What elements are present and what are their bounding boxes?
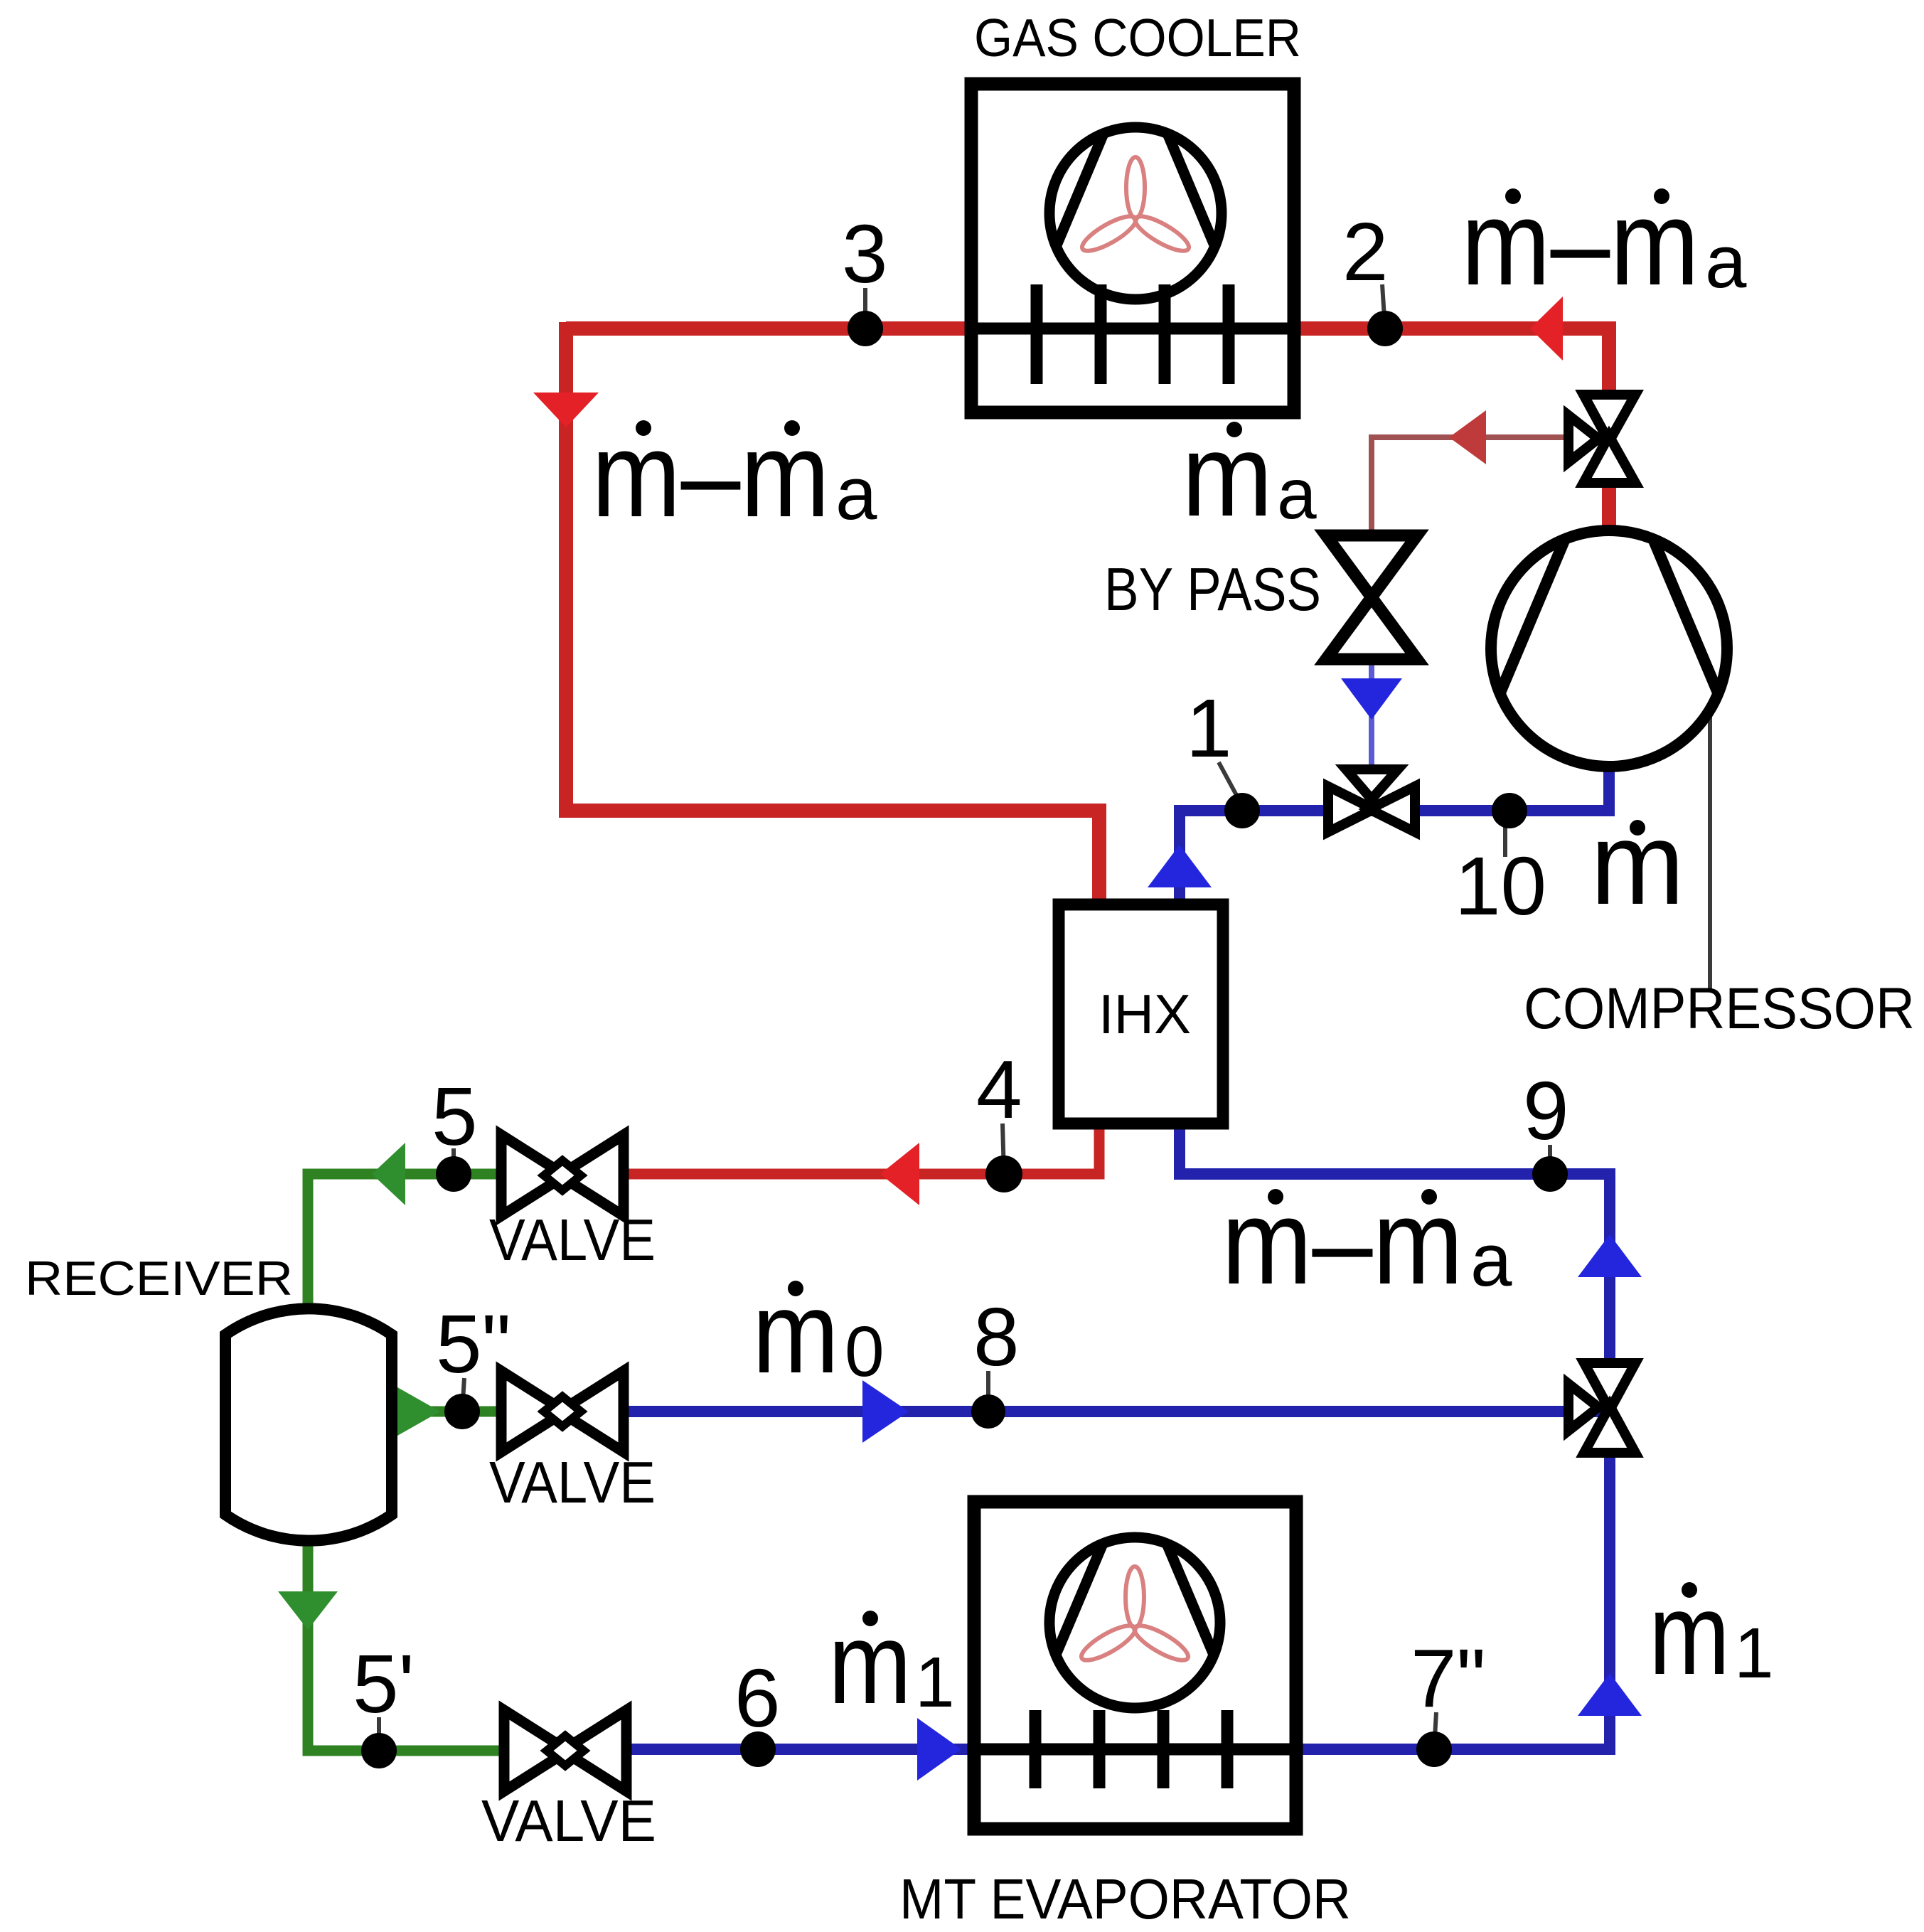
svg-text:0: 0 [845,1312,884,1392]
svg-text:9: 9 [1523,1064,1569,1157]
svg-text:6: 6 [734,1652,781,1744]
svg-text:VALVE: VALVE [489,1449,656,1515]
svg-text:10: 10 [1455,840,1546,932]
svg-text:1: 1 [915,1643,955,1722]
svg-text:GAS COOLER: GAS COOLER [974,8,1301,68]
svg-text:7": 7" [1411,1632,1486,1724]
svg-text:3: 3 [842,208,888,300]
svg-text:a: a [1470,1219,1512,1302]
svg-text:a: a [835,452,877,535]
svg-text:a: a [1277,454,1317,534]
svg-text:VALVE: VALVE [481,1788,656,1854]
svg-text:a: a [1705,220,1747,304]
svg-text:VALVE: VALVE [489,1207,656,1273]
svg-text:5': 5' [353,1638,415,1730]
svg-text:m: m [1591,798,1684,929]
svg-text:1: 1 [1186,682,1232,774]
svg-text:4: 4 [976,1043,1022,1136]
svg-text:5: 5 [432,1070,478,1163]
svg-text:MT EVAPORATOR: MT EVAPORATOR [899,1867,1351,1931]
svg-text:BY PASS: BY PASS [1104,556,1321,624]
svg-text:8: 8 [973,1291,1020,1383]
svg-text:2: 2 [1342,206,1389,298]
svg-text:RECEIVER: RECEIVER [25,1251,293,1306]
svg-text:1: 1 [1734,1613,1774,1693]
svg-text:5": 5" [436,1298,511,1390]
svg-text:IHX: IHX [1099,983,1191,1045]
svg-text:COMPRESSOR: COMPRESSOR [1524,976,1915,1041]
